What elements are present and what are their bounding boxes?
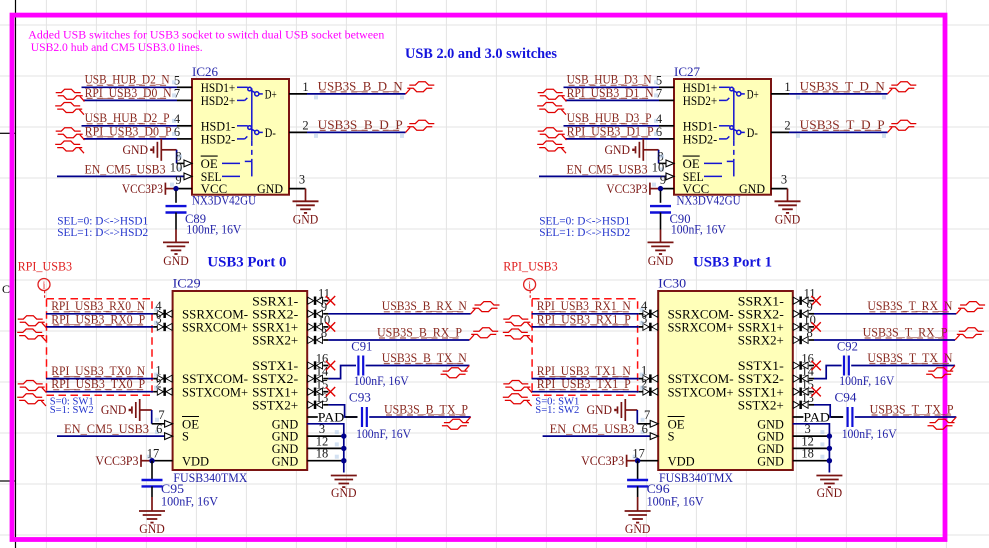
part number FUSB340TMX IC29 [173, 471, 247, 485]
pin 14 IC29 [308, 365, 329, 383]
net label USB3S_T_D_N [800, 79, 885, 93]
svg-text:GND: GND [293, 213, 319, 227]
svg-text:C91: C91 [351, 340, 372, 354]
net label RPI_USB3_RX0_N [51, 299, 145, 313]
pin 2 IC30 [639, 377, 658, 396]
svg-text:S: S [668, 430, 675, 444]
svg-text:3: 3 [781, 173, 787, 187]
wire USB3S_T_D_P [789, 132, 888, 138]
svg-text:9: 9 [321, 300, 327, 314]
pin names IC26 [201, 81, 283, 196]
pin 13 IC30 [793, 391, 814, 409]
pin 10 IC29 [308, 313, 331, 331]
pin 10 IC26 [170, 160, 192, 180]
svg-text:100nF, 16V: 100nF, 16V [842, 427, 897, 441]
svg-text:9: 9 [175, 173, 181, 187]
wire USB3S_T_RX_P [814, 339, 955, 341]
pin 4 IC26 [172, 112, 192, 126]
svg-text:SEL=0: D<->HSD1: SEL=0: D<->HSD1 [57, 215, 148, 227]
svg-text:EN_CM5_USB3: EN_CM5_USB3 [550, 422, 635, 436]
svg-text:RPI_USB3: RPI_USB3 [503, 260, 558, 274]
svg-text:GND: GND [817, 486, 843, 500]
svg-text:SSTX2+: SSTX2+ [252, 398, 298, 412]
pin 5 IC27 [654, 73, 674, 87]
svg-text:D-: D- [747, 126, 758, 140]
pin 2 IC26 [289, 118, 309, 132]
svg-text:USB_HUB_D3_N: USB_HUB_D3_N [567, 73, 652, 87]
wire EN_CM5_USB3 [57, 175, 184, 177]
svg-text:GND: GND [625, 522, 651, 536]
wire USB_HUB_D2_N [82, 86, 178, 88]
net label EN_CM5_USB3 [550, 422, 635, 436]
svg-text:S: S [182, 430, 189, 444]
junction [149, 458, 154, 463]
junction [827, 433, 832, 463]
svg-text:OE: OE [182, 417, 199, 431]
pin 4 IC27 [654, 112, 674, 126]
wire EN_CM5_USB3 [57, 435, 165, 437]
svg-text:8: 8 [806, 326, 812, 340]
svg-text:GND: GND [757, 454, 784, 468]
net label USB_HUB_D2_N [85, 73, 170, 87]
svg-text:16: 16 [801, 352, 814, 366]
net label RPI_USB3_RX1_N [537, 299, 631, 313]
connection indicators [633, 308, 825, 459]
ground C96 [625, 497, 651, 536]
pin 8 IC26 [175, 149, 192, 166]
svg-text:100nF, 16V: 100nF, 16V [356, 427, 411, 441]
svg-text:USB3S_B_D_N: USB3S_B_D_N [318, 79, 403, 93]
junction [173, 186, 178, 191]
designator IC30 [658, 277, 686, 291]
diff-pair directive RPI_USB3_RX1_P [503, 316, 532, 342]
capacitor C94 [835, 391, 897, 441]
blanket RPI_USB3 [18, 260, 152, 396]
svg-text:HSD2-: HSD2- [201, 133, 236, 147]
pin 8 IC29 [308, 326, 329, 344]
net label EN_CM5_USB3 [567, 162, 648, 176]
no-ERC pin 15 IC30 [811, 387, 820, 396]
svg-text:FUSB340TMX: FUSB340TMX [173, 471, 247, 485]
svg-text:7: 7 [644, 408, 650, 422]
svg-text:2: 2 [302, 118, 308, 132]
capacitor C96 [627, 461, 704, 509]
pin 7 IC26 [172, 86, 192, 100]
wire RPI_USB3_D1_P [565, 138, 659, 140]
svg-text:C: C [2, 282, 10, 296]
svg-text:GND: GND [739, 182, 765, 196]
pin 12 IC30 [801, 434, 814, 448]
pin 10 IC27 [652, 160, 674, 180]
diff-pair directive RPI_USB3_D0_P [55, 128, 84, 154]
net label USB3S_T_RX_P [863, 325, 948, 339]
wire USB_HUB_D3_P [564, 125, 660, 127]
svg-text:GND: GND [257, 182, 283, 196]
net label RPI_USB3_RX1_P [537, 312, 631, 326]
off-sheet glyph USB3S_T_RX_N [956, 302, 985, 314]
svg-text:HSD2+: HSD2+ [201, 94, 236, 108]
svg-text:GND: GND [775, 213, 801, 227]
svg-text:C94: C94 [835, 391, 858, 405]
net label USB3S_B_D_P [318, 118, 403, 132]
svg-text:SSTX1-: SSTX1- [738, 359, 784, 373]
pin 11 IC29 [308, 287, 330, 305]
svg-text:C93: C93 [349, 391, 371, 405]
pin 17 IC29 [147, 447, 173, 461]
pin 5 IC26 [172, 73, 192, 87]
svg-text:SSTXCOM-: SSTXCOM- [668, 372, 734, 386]
power port GND (OE) IC27 [605, 139, 666, 164]
connection indicators [147, 308, 339, 459]
wire USB3S_B_D_P [307, 132, 406, 138]
op IC body IC26 [192, 79, 289, 195]
svg-text:SSTXCOM+: SSTXCOM+ [668, 385, 734, 399]
svg-text:GND: GND [272, 454, 299, 468]
svg-text:14: 14 [316, 365, 329, 379]
svg-text:EN_CM5_USB3: EN_CM5_USB3 [567, 162, 648, 176]
net label RPI_USB3_RX0_P [51, 312, 145, 326]
svg-text:i: i [528, 281, 531, 292]
pin 9 IC30 [793, 300, 814, 318]
wire USB3S_T_TX_P [814, 405, 956, 417]
svg-text:RPI_USB3_D0_P: RPI_USB3_D0_P [85, 124, 172, 138]
no-ERC pin 11 IC29 [326, 296, 335, 305]
pin 9 IC26 [175, 173, 192, 189]
net label RPI_USB3_TX1_P [537, 377, 631, 391]
wire RPI_USB3_RX1_P [532, 326, 639, 328]
svg-text:14: 14 [801, 365, 814, 379]
pin 10 IC30 [793, 313, 816, 331]
svg-text:USB_HUB_D3_P: USB_HUB_D3_P [567, 111, 652, 125]
svg-text:USB3S_B_D_P: USB3S_B_D_P [318, 118, 403, 132]
svg-text:USB3S_T_RX_P: USB3S_T_RX_P [863, 325, 948, 339]
part number NX3DV42GU IC27 [677, 194, 741, 208]
svg-text:100nF, 16V: 100nF, 16V [186, 222, 241, 236]
ground pin3 IC27 [775, 189, 801, 227]
designator IC26 [192, 65, 218, 79]
svg-text:GND: GND [101, 403, 127, 417]
svg-text:GND: GND [139, 522, 165, 536]
switch graphics IC27 [704, 87, 745, 176]
svg-text:S=1: SW2: S=1: SW2 [535, 404, 579, 416]
wire USB3S_T_RX_N [814, 313, 956, 315]
pin 1 IC27 [771, 80, 791, 94]
diff-pair directive RPI_USB3_D1_P [537, 128, 566, 154]
capacitor C93 [349, 391, 411, 441]
ground bus IC30 [816, 476, 842, 500]
switch graphics IC26 [222, 87, 263, 176]
blanket RPI_USB3 [503, 260, 637, 396]
svg-text:USB3S_T_D_N: USB3S_T_D_N [800, 79, 885, 93]
svg-text:SSTX2+: SSTX2+ [738, 398, 784, 412]
pin 12 IC29 [316, 434, 329, 448]
svg-text:RPI_USB3_D1_P: RPI_USB3_D1_P [567, 124, 654, 138]
pin 4 IC30 [639, 299, 658, 318]
svg-text:USB3S_T_TX_N: USB3S_T_TX_N [867, 351, 952, 365]
wire GND bus IC29 [307, 424, 344, 473]
net label USB3S_T_TX_N [867, 351, 952, 365]
power port VCC3P3 IC29 [96, 454, 153, 468]
wire USB_HUB_D2_P [82, 125, 178, 127]
svg-text:100nF, 16V: 100nF, 16V [647, 494, 704, 508]
pin 16 IC30 [793, 352, 814, 370]
svg-text:USB3S_T_TX_P: USB3S_T_TX_P [870, 402, 954, 416]
svg-text:16: 16 [316, 352, 329, 366]
svg-text:C92: C92 [837, 340, 858, 354]
svg-text:9: 9 [806, 300, 812, 314]
svg-text:HSD2-: HSD2- [683, 133, 718, 147]
svg-text:USB3S_B_RX_N: USB3S_B_RX_N [382, 299, 467, 313]
svg-text:1: 1 [784, 80, 790, 94]
net label USB3S_B_RX_P [377, 325, 462, 339]
svg-text:USB3S_T_D_P: USB3S_T_D_P [800, 118, 885, 132]
svg-text:SEL=1: D<->HSD2: SEL=1: D<->HSD2 [57, 227, 148, 239]
op IC body IC29 [173, 291, 308, 470]
svg-text:VCC3P3: VCC3P3 [606, 182, 647, 196]
connection indicators [652, 154, 664, 186]
pin 1 IC29 [153, 364, 172, 383]
no-ERC pin 10 IC29 [326, 322, 335, 331]
svg-text:SSRX1+: SSRX1+ [738, 321, 784, 335]
ground bus IC29 [331, 476, 357, 500]
svg-text:SSTXCOM+: SSTXCOM+ [182, 385, 248, 399]
no-ERC pin 11 IC30 [811, 296, 820, 305]
off-sheet glyph USB3S_T_TX_P [928, 417, 957, 429]
net label RPI_USB3_D0_P [85, 124, 172, 138]
svg-text:VDD: VDD [182, 454, 209, 468]
off-sheet glyph USB3S_B_TX_N [441, 366, 470, 378]
pin 18 IC29 [316, 447, 329, 461]
pin 3 IC29 [153, 312, 172, 331]
pin 4 IC29 [153, 299, 172, 318]
svg-text:SSRX2+: SSRX2+ [738, 334, 784, 348]
power port VCC3P3 IC27 [606, 182, 660, 196]
svg-text:RPI_USB3: RPI_USB3 [18, 260, 73, 274]
diff-pair directive RPI_USB3_D1_N [537, 89, 566, 115]
no-ERC pin 10 IC30 [811, 322, 820, 331]
svg-text:SSRXCOM+: SSRXCOM+ [182, 321, 248, 335]
diff-pair directive RPI_USB3_TX0_P [17, 381, 46, 407]
svg-text:HSD1+: HSD1+ [683, 81, 718, 95]
svg-text:SSTX2-: SSTX2- [252, 372, 298, 386]
pin 2 IC27 [771, 118, 791, 132]
off-sheet glyph USB3S_B_RX_P [469, 328, 498, 340]
wire USB3S_B_RX_P [328, 339, 469, 341]
svg-text:1: 1 [302, 80, 308, 94]
pin 11 IC30 [793, 287, 815, 305]
wire RPI_USB3_RX1_N [532, 313, 639, 315]
wire EN_CM5_USB3 [543, 435, 651, 437]
svg-text:RPI_USB3_TX1_N: RPI_USB3_TX1_N [537, 364, 631, 378]
pin names IC27 [683, 81, 765, 196]
svg-text:SSTX1-: SSTX1- [252, 359, 298, 373]
sheet frame line [0, 0, 16, 548]
svg-text:8: 8 [321, 326, 327, 340]
pin 7 IC30 [644, 408, 658, 427]
svg-text:SSRX1-: SSRX1- [252, 294, 298, 308]
pin 7 IC27 [654, 86, 674, 100]
note S mapping IC30 [535, 396, 579, 417]
zone label C [2, 282, 10, 296]
svg-text:USB_HUB_D2_N: USB_HUB_D2_N [85, 73, 170, 87]
diff-pair directive RPI_USB3_TX1_P [503, 381, 532, 407]
svg-text:VCC3P3: VCC3P3 [581, 454, 624, 468]
pin 16 IC29 [308, 352, 329, 370]
designator IC27 [674, 65, 700, 79]
svg-text:7: 7 [158, 408, 164, 422]
power port GND (OE) IC30 [587, 399, 651, 424]
off-sheet glyph USB3S_T_RX_P [955, 328, 984, 340]
svg-text:GND: GND [123, 143, 149, 157]
off-sheet glyph USB3S_B_RX_N [471, 302, 500, 314]
svg-text:OE: OE [201, 157, 218, 171]
wire RPI_USB3_D0_P [83, 138, 177, 140]
pin 9 IC29 [308, 300, 329, 318]
designator IC29 [173, 277, 201, 291]
pin 8 IC30 [793, 326, 814, 344]
off-sheet glyph USB3S_T_D_P [888, 120, 917, 132]
svg-text:RPI_USB3_D1_N: RPI_USB3_D1_N [567, 86, 654, 100]
ground C90 [648, 230, 674, 268]
wire RPI_USB3_TX0_P [46, 391, 153, 393]
pin PAD IC29 [307, 410, 344, 424]
svg-text:RPI_USB3_TX0_N: RPI_USB3_TX0_N [51, 364, 145, 378]
wire RPI_USB3_TX0_N [46, 378, 153, 380]
part number NX3DV42GU IC26 [192, 194, 256, 208]
pin 13 IC29 [308, 391, 329, 409]
svg-text:HSD2+: HSD2+ [683, 94, 718, 108]
note SEL mapping IC27 [539, 215, 630, 239]
pin 3 IC30 [639, 312, 658, 331]
no-ERC pin 16 IC30 [811, 361, 820, 370]
pin 6 IC26 [172, 125, 192, 139]
ground pin3 IC26 [293, 189, 319, 227]
wire USB3S_B_TX_P [328, 405, 470, 417]
pin 1 IC30 [639, 364, 658, 383]
svg-text:SSRX2-: SSRX2- [738, 307, 784, 321]
svg-text:SSTX2-: SSTX2- [738, 372, 784, 386]
pin 15 IC29 [308, 378, 329, 396]
wire RPI_USB3_TX1_N [532, 378, 639, 380]
svg-text:EN_CM5_USB3: EN_CM5_USB3 [85, 162, 166, 176]
svg-text:SSRX2+: SSRX2+ [252, 334, 298, 348]
pin 1 IC26 [289, 80, 309, 94]
pin 3 IC29 [319, 422, 325, 436]
svg-text:13: 13 [316, 391, 329, 405]
svg-text:D-: D- [265, 126, 276, 140]
off-sheet glyph USB3S_T_D_N [888, 82, 917, 94]
svg-text:USB_HUB_D2_P: USB_HUB_D2_P [85, 111, 170, 125]
wire USB3S_B_TX_N [328, 366, 469, 379]
svg-text:SSRX1-: SSRX1- [738, 294, 784, 308]
wire USB_HUB_D3_N [564, 86, 660, 88]
capacitor C91 [351, 340, 408, 388]
capacitor C89 [166, 191, 242, 237]
svg-text:USB3 Port 0: USB3 Port 0 [207, 255, 286, 271]
svg-text:100nF, 16V: 100nF, 16V [839, 374, 894, 388]
wire RPI_USB3_RX0_N [46, 313, 153, 315]
svg-text:VCC3P3: VCC3P3 [122, 182, 163, 196]
title USB3 Port 1 [693, 255, 772, 271]
pin 9 IC27 [660, 173, 674, 189]
svg-text:VCC: VCC [683, 182, 710, 196]
pin 2 IC29 [153, 377, 172, 396]
svg-text:USB3S_T_RX_N: USB3S_T_RX_N [867, 299, 952, 313]
svg-text:S=1: SW2: S=1: SW2 [50, 404, 94, 416]
no-ERC pin 16 IC29 [326, 361, 335, 370]
net label USB_HUB_D3_N [567, 73, 652, 87]
net label EN_CM5_USB3 [85, 162, 166, 176]
power port GND (OE) IC29 [101, 399, 165, 424]
pin 6 IC30 [642, 422, 659, 439]
junction [341, 433, 346, 463]
svg-text:OE: OE [683, 157, 700, 171]
svg-text:15: 15 [316, 378, 329, 392]
capacitor C90 [650, 191, 726, 237]
svg-text:USB 2.0 and 3.0 switches: USB 2.0 and 3.0 switches [405, 46, 557, 62]
net label USB_HUB_D2_P [85, 111, 170, 125]
ground C89 [163, 230, 189, 268]
junction [635, 458, 640, 463]
power port GND (OE) IC26 [123, 139, 184, 164]
svg-text:SSRXCOM+: SSRXCOM+ [668, 321, 734, 335]
net label USB_HUB_D3_P [567, 111, 652, 125]
svg-text:USB3 Port 1: USB3 Port 1 [693, 255, 772, 271]
power port VCC3P3 IC26 [122, 182, 176, 196]
svg-text:SEL=1: D<->HSD2: SEL=1: D<->HSD2 [539, 227, 630, 239]
svg-text:15: 15 [801, 378, 814, 392]
svg-text:SSTXCOM-: SSTXCOM- [182, 372, 248, 386]
svg-text:HSD1-: HSD1- [201, 119, 236, 133]
svg-text:VCC: VCC [201, 182, 228, 196]
wire RPI_USB3_D0_N [83, 99, 177, 101]
svg-text:D+: D+ [747, 88, 759, 102]
off-sheet glyph USB3S_T_TX_N [926, 366, 955, 378]
svg-text:IC30: IC30 [658, 277, 686, 291]
svg-text:2: 2 [784, 118, 790, 132]
pin names IC30 [668, 294, 784, 468]
pin names IC29 [182, 294, 298, 468]
diff-pair directive RPI_USB3_D0_N [55, 89, 84, 115]
junction [658, 186, 663, 191]
net label RPI_USB3_TX0_P [51, 377, 145, 391]
svg-text:3: 3 [299, 173, 305, 187]
svg-text:IC29: IC29 [173, 277, 201, 291]
svg-text:RPI_USB3_D0_N: RPI_USB3_D0_N [85, 86, 172, 100]
net label RPI_USB3_D1_N [567, 86, 654, 100]
wire RPI_USB3_RX0_P [46, 326, 153, 328]
svg-text:USB3S_B_RX_P: USB3S_B_RX_P [377, 325, 462, 339]
power port VCC3P3 IC30 [581, 454, 638, 468]
net label USB3S_T_TX_P [870, 402, 954, 416]
pin 18 IC30 [801, 447, 814, 461]
svg-text:USB3S_B_TX_P: USB3S_B_TX_P [384, 402, 468, 416]
pin 3 IC27 [771, 173, 788, 189]
off-sheet glyph USB3S_B_TX_P [442, 417, 471, 429]
net label RPI_USB3_D0_N [85, 86, 172, 100]
svg-text:18: 18 [316, 447, 329, 461]
svg-text:GND: GND [587, 403, 613, 417]
net label USB3S_T_RX_N [867, 299, 952, 313]
svg-text:VDD: VDD [668, 454, 695, 468]
pin 3 IC30 [804, 422, 810, 436]
svg-text:USB3S_B_TX_N: USB3S_B_TX_N [382, 351, 467, 365]
svg-text:6: 6 [156, 422, 162, 436]
pin 6 IC29 [156, 422, 173, 439]
svg-text:100nF, 16V: 100nF, 16V [671, 222, 726, 236]
svg-text:18: 18 [801, 447, 814, 461]
wire USB3S_T_TX_N [814, 366, 955, 379]
